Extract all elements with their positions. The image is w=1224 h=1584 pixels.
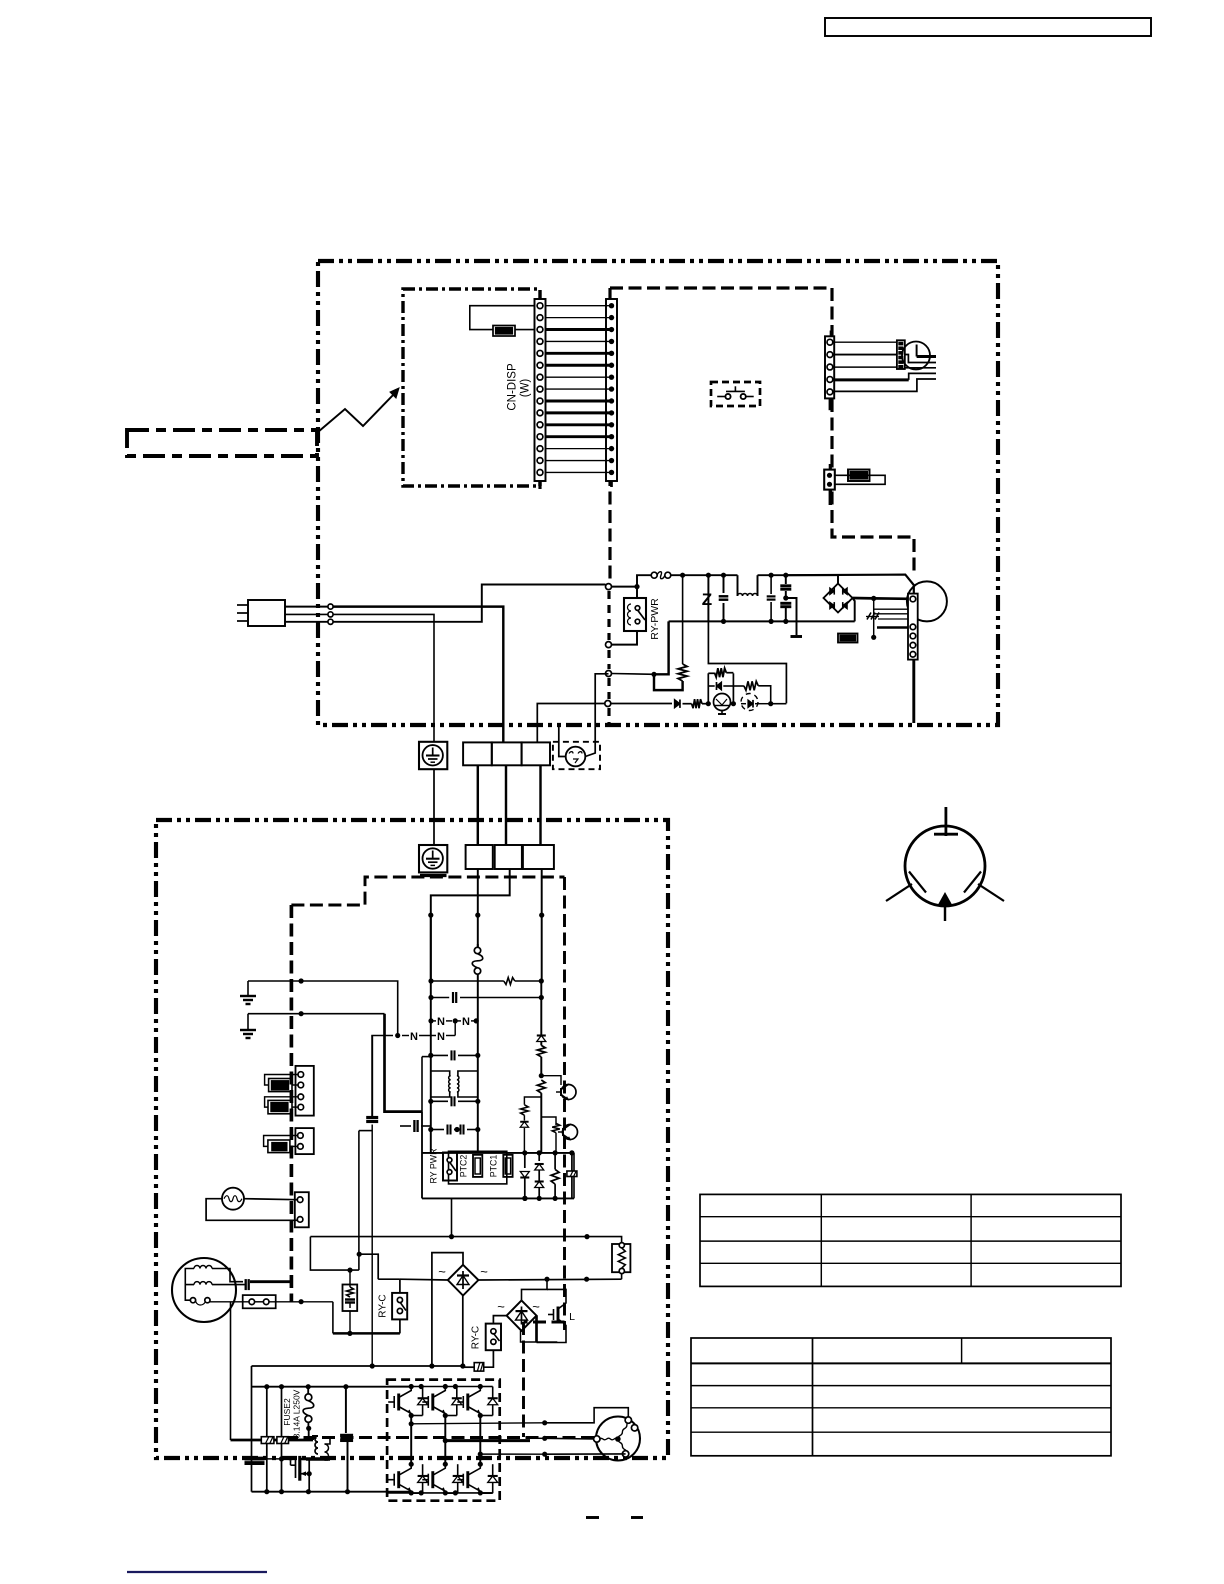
MG filament left	[886, 884, 912, 901]
zener pair column	[538, 1153, 540, 1161]
wire E (earth)	[285, 613, 328, 615]
diode D-mid	[708, 685, 714, 687]
svg-text:FUSE2: FUSE2	[282, 1398, 292, 1426]
wire from cap x372	[371, 1125, 373, 1367]
motor run capacitor	[212, 1269, 243, 1282]
line choke coil	[737, 575, 739, 596]
svg-text:PTC2: PTC2	[459, 1155, 469, 1178]
connector CN-DISP bottom tick	[538, 481, 541, 489]
thermistor TH1 loop	[835, 475, 885, 484]
pcb boundary jog to x523	[524, 1321, 565, 1324]
fan minus wire	[873, 598, 875, 637]
module top rail	[387, 1386, 480, 1388]
title box (empty)	[825, 18, 1151, 36]
hatch fuse on return	[474, 1363, 484, 1372]
rail y1236 (to heater)	[310, 1237, 621, 1243]
N-symbol row 2	[371, 1035, 393, 1037]
display p.c.b. boundary (dash-dot)	[403, 289, 540, 486]
wire aux crossing	[539, 765, 541, 845]
wire rail to bridge top	[837, 575, 839, 583]
relay RY-PWR contact feed	[636, 587, 638, 598]
ground terminal box (lower)	[419, 845, 447, 872]
motor feed V	[545, 1437, 594, 1440]
bridge DC output to fan	[853, 597, 874, 600]
motor M windings (wye)	[615, 1436, 621, 1442]
svg-text:L: L	[569, 1311, 575, 1323]
monitor wire y1440 with link boxes	[231, 1439, 314, 1442]
connector pin CN-PWR-3	[606, 671, 612, 677]
heater feed wires	[621, 1274, 623, 1280]
wire fuse to filter rail	[671, 574, 738, 576]
connector CN-lamp body (2-pin)	[295, 1192, 309, 1227]
svg-text:CN-DISP: CN-DISP	[507, 363, 519, 411]
igbt W+ / diode	[466, 1394, 469, 1411]
DB3 top wire	[522, 1279, 548, 1300]
oven lamp	[222, 1188, 244, 1210]
svg-text:~: ~	[497, 1299, 505, 1314]
loop rectangle below bridge3	[525, 1325, 527, 1343]
snubber cap left	[400, 1125, 411, 1127]
resistor R-line	[431, 980, 504, 982]
svg-text:~: ~	[532, 1299, 540, 1314]
bulk capacitor plates	[245, 1457, 265, 1461]
relay RY-C no.1 box	[392, 1293, 407, 1320]
latch switch loop 3	[264, 1136, 298, 1147]
transistor Q-c2	[563, 1125, 578, 1140]
relay RY-PWR bottom wire to pin2	[612, 631, 638, 645]
Q-L emitter loop	[537, 1325, 567, 1343]
callout arrow (zigzag)	[318, 392, 396, 432]
fan motor FM circle	[907, 581, 947, 621]
chassis ground G2	[247, 1014, 249, 1029]
mosfet Q-M	[298, 1456, 301, 1481]
wire N crossing	[505, 765, 507, 845]
svg-text:N: N	[462, 1016, 470, 1028]
module bottom rail	[387, 1492, 492, 1494]
callout label box	[127, 430, 317, 456]
CN-KEY top tick	[830, 331, 832, 337]
bottom row: diode D-in	[611, 703, 672, 705]
power line boundary (long dash) below relay	[607, 650, 610, 669]
bulk capacitor C-bus x346	[345, 1387, 347, 1433]
line vertical left x431	[430, 915, 432, 1057]
pcb boundary vertical x523	[522, 1322, 525, 1437]
bottom rail of filter	[669, 620, 855, 622]
TTM centrifugal switch	[190, 1298, 195, 1303]
capacitor C-y1	[785, 575, 787, 584]
turntable motor TTM circle	[172, 1258, 236, 1322]
svg-text:3.14A L250V: 3.14A L250V	[292, 1389, 302, 1438]
capacitor C-x	[431, 997, 449, 999]
MG filament right	[978, 884, 1004, 901]
latch switch loop upper	[265, 1075, 298, 1086]
ribbon connector bottom tick	[610, 481, 613, 487]
key unit boundary (long dash) top edge	[610, 286, 832, 289]
connector pin CN-PWR-2	[606, 642, 612, 648]
bottom rail inverter y1492	[252, 1491, 412, 1493]
bridge rectifier DB2 (diamond)	[448, 1265, 479, 1296]
wire diode W+ top hook	[480, 1386, 492, 1388]
pcb boundary vertical x291	[290, 905, 294, 1302]
rail continue	[758, 574, 839, 576]
ptc PTC2 body	[473, 1155, 482, 1177]
svg-text:RY-C: RY-C	[378, 1294, 389, 1317]
pcb boundary horizontal y1438	[285, 1436, 596, 1439]
relay RY PWR (board) box	[443, 1153, 457, 1181]
chassis hatch marks	[867, 613, 871, 620]
svg-text:RY-C: RY-C	[471, 1326, 482, 1349]
motor feed U	[545, 1408, 629, 1423]
MG antenna	[944, 807, 947, 836]
continuation dash 2	[631, 1516, 643, 1519]
phase V output (thick)	[443, 1438, 448, 1443]
connector CN-DISP top tick	[539, 293, 542, 299]
thyristor Q-1 (circle)	[714, 694, 731, 711]
parts table (upper)	[700, 1194, 1121, 1286]
igbt U+ / diode	[397, 1394, 400, 1411]
membrane push-button switch	[717, 396, 725, 398]
ground terminal box (upper)	[419, 742, 447, 769]
branch x358.9	[359, 1130, 372, 1132]
phase U output	[409, 1421, 414, 1426]
DB2 top wire	[432, 1253, 463, 1366]
chassis tap	[786, 598, 797, 635]
DB3 bottom wire	[521, 1331, 546, 1342]
capacitor C-ctl2	[431, 1100, 448, 1102]
left vertical x251	[251, 1366, 253, 1492]
relay RY-PWR coil squiggle	[628, 604, 632, 625]
terminal block row (upper)	[463, 742, 492, 765]
chassis ground G1	[247, 981, 249, 995]
capacitor C-y2	[780, 602, 791, 605]
module blob (black)	[838, 634, 858, 643]
pcb boundary vertical x565	[563, 877, 566, 1330]
wire top to fan connector	[786, 575, 914, 594]
RY-C1 top wire	[378, 1278, 400, 1280]
link box 2	[277, 1437, 289, 1444]
capacitor C-line2	[770, 575, 772, 594]
earth wire 2 to board (thick)	[248, 1013, 385, 1015]
svg-text:N: N	[437, 1031, 445, 1043]
inverter module dashed box	[387, 1380, 500, 1501]
svg-text:PTC1: PTC1	[489, 1155, 499, 1178]
svg-text:(W): (W)	[520, 379, 532, 398]
connector CN-DISP pins	[537, 303, 543, 309]
display ribbon connector pins (filled)	[609, 303, 614, 308]
fan connector body	[908, 594, 918, 660]
thermistor hatched box	[571, 1153, 573, 1171]
terminal block row (lower)	[466, 845, 493, 869]
snubber network box	[343, 1285, 358, 1312]
snubber bottom wire	[349, 1311, 351, 1333]
fuse F-2 (lower unit)	[477, 944, 479, 948]
capacitor C-line1	[723, 575, 725, 593]
svg-text:N: N	[410, 1031, 418, 1043]
igbt W- / diode	[466, 1471, 469, 1488]
svg-text:RY-PWR: RY-PWR	[649, 598, 661, 640]
DB3 right vertex wire	[535, 1316, 538, 1343]
hv board outline	[421, 1112, 423, 1199]
wire L (live)	[285, 606, 328, 608]
connector CN-latch body (4-pin)	[296, 1066, 314, 1116]
display ribbon cable connector body	[606, 299, 617, 481]
relay RY-PWR contact	[635, 606, 640, 611]
transformer T-ctl primary cap top	[430, 1057, 432, 1153]
phase rails vertical	[410, 1416, 412, 1465]
power line boundary (long dash) between pins	[607, 591, 610, 640]
motor M terminals	[594, 1436, 600, 1442]
wire CN-KEY pin5	[834, 379, 936, 391]
thick wire to boundary	[250, 1280, 291, 1283]
board mid connections	[541, 1076, 561, 1085]
connector CN-DISP (W) body	[535, 299, 546, 481]
plug connector pins	[328, 604, 333, 609]
wire L crossing	[477, 765, 479, 845]
TTM wires	[185, 1269, 194, 1285]
wire CN-KEY pin3	[834, 366, 897, 368]
key unit boundary right edge	[832, 288, 914, 572]
buzzer circle	[902, 342, 930, 370]
link box 1	[261, 1437, 274, 1444]
wire snubber row	[332, 1302, 334, 1334]
pcb boundary long-dash path	[291, 877, 564, 905]
connector CN-KEY body (5-pin)	[825, 336, 834, 398]
wires below terminal blocks	[431, 869, 510, 981]
fan connector down-wire to border	[912, 660, 915, 723]
wire bridge bottom	[853, 598, 855, 621]
svg-text:~: ~	[438, 1264, 446, 1279]
CN-TH bottom tick	[829, 490, 832, 505]
wire CN-KEY pin2	[834, 354, 897, 356]
thermal cutout left wire	[559, 725, 566, 756]
diode pack Q-2 (circle)	[741, 694, 758, 711]
thermal cutout right wire	[585, 674, 608, 757]
fuse FUSE2	[307, 1387, 309, 1395]
resistor R-b2	[554, 1153, 556, 1170]
magnetron MG circle	[905, 826, 985, 906]
earth wire 1 to board	[248, 981, 398, 1036]
feed down to thyristor network	[708, 621, 786, 703]
CN-KEY bottom tick	[829, 398, 832, 410]
power unit boundary box (dash-dot-dot)	[156, 820, 668, 1458]
bus cap C-b2 vertical x281	[281, 1387, 283, 1492]
inline connector (6 pads)	[897, 340, 905, 369]
N-symbol row 1	[428, 1018, 433, 1023]
resistor-diode column x524	[524, 1097, 541, 1105]
motor feed W	[545, 1453, 626, 1455]
monitor wire from switch	[210, 1301, 249, 1303]
resistor R-b (top branch)	[707, 673, 709, 703]
rail corner to node	[654, 621, 669, 674]
varistor Z drop wire	[707, 575, 709, 621]
bridge rectifier DB3 (diamond)	[507, 1300, 537, 1330]
relay RY-C no.2 box	[486, 1324, 501, 1351]
DB2 bottom wire	[462, 1296, 464, 1367]
ribbon cable wires	[546, 305, 612, 307]
control-unit boundary box (dash-dot-dot)	[318, 261, 998, 725]
TTM winding 2	[194, 1282, 212, 1285]
resistor R-disp (pin1 to pin3 loop)	[470, 306, 535, 330]
wire pin3 to node	[612, 673, 655, 676]
bridge rectifier DB1 (diamond)	[824, 584, 853, 613]
connector pin CN-PWR-1	[606, 584, 612, 590]
heater lower rail y1279 (right)	[478, 1278, 621, 1281]
wire board to heater rail	[451, 1198, 453, 1236]
wire pin1 to fuse branch	[612, 586, 638, 588]
earth wire crossing boxes	[433, 769, 435, 845]
wire CN-KEY pin1	[834, 341, 897, 343]
monitor drop wire	[230, 1302, 232, 1440]
footer rule	[127, 1571, 267, 1573]
parts table (lower)	[691, 1338, 1111, 1456]
igbt Q-L	[557, 1307, 560, 1323]
connector CN-latch2 body (2-pin)	[295, 1128, 313, 1154]
thermal cutout symbol	[566, 747, 586, 767]
svg-text:~: ~	[480, 1264, 488, 1279]
transformer T-ctl windings	[449, 1076, 451, 1092]
rail jog at left	[310, 1237, 359, 1271]
inverter transformer T2	[315, 1436, 318, 1454]
heater H1 box	[612, 1244, 630, 1272]
connector CN-KEY pins	[827, 339, 833, 345]
buzzer chord	[916, 345, 918, 357]
resistor column x556	[552, 1123, 560, 1132]
TTM winding 1	[194, 1266, 212, 1269]
wire hatch to RY-C2	[484, 1350, 494, 1367]
monitor bus y1333	[333, 1332, 400, 1334]
connector CN-TH body (2-pin)	[824, 470, 835, 490]
RY-C1 bottom wire	[399, 1319, 401, 1333]
ptc PTC1 body	[503, 1155, 512, 1177]
resistor R-a (dropper)	[682, 575, 684, 664]
snubber top wire	[349, 1270, 351, 1284]
svg-text:N: N	[437, 1016, 445, 1028]
membrane switch dashed box	[711, 382, 760, 406]
double capacitor row	[431, 1129, 444, 1131]
igbt V- / diode	[431, 1471, 434, 1488]
heater lower rail y1279 (left)	[400, 1278, 448, 1281]
resistor R-c to right leg	[733, 685, 744, 687]
wire block3 to relay pin4	[537, 704, 605, 743]
monitor return y1366	[252, 1365, 463, 1367]
branch to heater return	[359, 1254, 378, 1279]
power supply plug	[248, 600, 285, 626]
key unit boundary left edge	[608, 288, 611, 584]
top rail inverter y1387	[252, 1386, 412, 1388]
diode D-b1	[524, 1153, 526, 1168]
thermal cutout dashed box	[553, 742, 600, 769]
fan wires thin	[874, 608, 908, 610]
transistor Q-c1	[561, 1085, 576, 1100]
relay RY-PWR box	[624, 598, 646, 631]
svg-text:Z: Z	[702, 590, 712, 609]
igbt U- / diode	[397, 1471, 400, 1488]
connector CN-ttm (2-pin)	[243, 1295, 276, 1308]
wire CN-KEY pin4 (thick)	[834, 378, 909, 381]
CN-TH top tick	[829, 464, 832, 470]
wire N (neutral)	[285, 621, 328, 623]
board top rail	[422, 1152, 574, 1154]
connector pin CN-PWR-4	[605, 701, 611, 707]
bus cap C-b1	[266, 1387, 268, 1492]
thermistor TH1 body	[848, 470, 870, 482]
hv module outline box	[449, 1151, 507, 1184]
T2 bottom thick bar	[306, 1457, 328, 1460]
MG anode arrow	[938, 892, 953, 906]
top rail junction dots	[680, 573, 685, 578]
continuation dash 1	[586, 1516, 599, 1519]
lamp wires	[244, 1199, 297, 1200]
phase W output	[478, 1452, 483, 1457]
fuse FUSE1	[637, 575, 651, 586]
latch switch loop lower	[265, 1097, 298, 1107]
capacitor C-dc	[371, 1036, 373, 1117]
resistor R-in	[683, 703, 692, 705]
board bottom rail	[422, 1197, 574, 1199]
RY-C2 top wire to bridge DB3	[493, 1316, 506, 1324]
right feed column x541	[540, 981, 542, 1035]
igbt V+ / diode	[431, 1394, 434, 1411]
compressor-fan 3phase motor M	[596, 1417, 640, 1461]
